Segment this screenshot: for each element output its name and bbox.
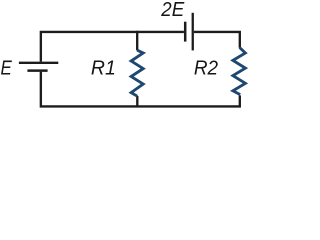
svg-text:2E: 2E (160, 0, 184, 21)
battery E long plate (19, 62, 58, 64)
wire: top wire right span + right wire down to R2 start (194, 32, 240, 48)
wire: left wire below battery + bottom wire + right stub up to R2 end (41, 72, 240, 107)
resistor R2 zigzag (233, 48, 246, 95)
wire: R1 branch top stub from junction on top wire (136, 31, 138, 51)
battery 2E long plate (192, 13, 194, 51)
battery 2E (top branch) (185, 13, 193, 51)
wire: top wire left span + left wire down to battery E (41, 32, 184, 62)
resistor R1 zigzag (131, 50, 143, 96)
battery 2E short plate (184, 22, 187, 42)
battery E (left branch) (19, 63, 58, 71)
svg-text:R2: R2 (194, 57, 218, 79)
svg-text:E: E (1, 57, 13, 79)
wire: R1 branch bottom stub (136, 96, 138, 106)
svg-text:R1: R1 (91, 57, 116, 79)
battery E short plate (27, 69, 47, 72)
